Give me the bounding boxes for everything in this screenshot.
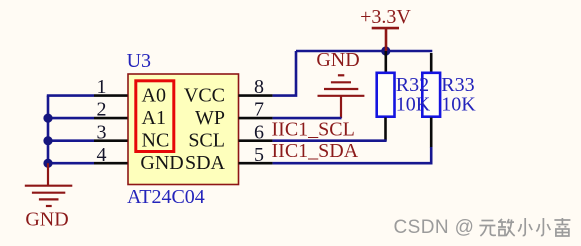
svg-text:2: 2 [97,99,107,121]
pin 6 (SCL) [188,121,272,151]
svg-text:5: 5 [254,144,264,166]
svg-text:VCC: VCC [184,85,225,107]
svg-text:4: 4 [97,144,107,166]
ground symbol (pin 7, inverted) [316,49,364,118]
svg-text:GND: GND [25,208,68,230]
watermark glyph 无 [479,221,496,237]
svg-text:R33: R33 [441,74,474,96]
watermark glyph 小 [518,218,532,236]
svg-text:A0: A0 [142,85,166,107]
watermark glyph 小 [536,218,550,236]
svg-text:8: 8 [254,76,264,98]
wire pin3 to bus [48,139,94,142]
power +3.3V [360,6,411,51]
svg-text:10K: 10K [396,94,431,116]
svg-text:IIC1_SCL: IIC1_SCL [272,118,355,140]
resistor R33 [422,53,440,148]
pin 4 (GND) [94,144,184,174]
resistor R32 [377,51,395,141]
junction dot pin2 [43,114,52,123]
svg-text:A1: A1 [142,107,166,129]
junction dot pin4 [43,159,52,168]
wire pin4 to bus [48,162,94,165]
svg-text:GND: GND [316,49,359,71]
svg-text:WP: WP [195,107,225,129]
wire pin5 to R33 [273,147,432,163]
wire pin7 to ground [273,117,342,120]
pin 3 (NC) [94,121,169,151]
svg-text:GND: GND [140,152,183,174]
wire pin8 up to rail [273,51,296,96]
svg-text:SDA: SDA [185,152,226,174]
wire pin6 to R32 [273,139,387,142]
pin 5 (SDA) [185,144,273,174]
svg-text:NC: NC [142,130,170,152]
svg-text:3: 3 [97,121,107,143]
watermark glyph 敌 [498,219,515,236]
wire top rail [296,50,432,53]
pin 2 (A1) [94,99,166,129]
IC U3 body [128,74,239,185]
pin 8 (VCC) [184,76,273,106]
highlight box (red) around A0 A1 NC [136,81,174,152]
svg-text:10K: 10K [441,94,476,116]
svg-text:SCL: SCL [188,130,225,152]
wire left vertical bus [47,96,50,164]
svg-text:6: 6 [254,121,264,143]
ground symbol (left) [25,163,73,206]
pin 1 (A0) [94,76,166,106]
svg-text:AT24C04: AT24C04 [127,186,205,208]
pin 7 (WP) [195,99,273,129]
junction dot +3.3V [381,46,390,55]
svg-text:1: 1 [97,76,107,98]
watermark glyph 雷 [554,218,570,236]
svg-text:U3: U3 [127,50,151,72]
svg-text:R32: R32 [396,74,429,96]
wire pin1 to bus [47,94,94,97]
svg-text:CSDN @: CSDN @ [394,217,475,238]
svg-text:7: 7 [254,99,264,121]
junction dot pin3 [43,136,52,145]
wire pin2 to bus [48,117,94,120]
svg-text:IIC1_SDA: IIC1_SDA [272,140,359,162]
svg-text:+3.3V: +3.3V [360,6,411,28]
